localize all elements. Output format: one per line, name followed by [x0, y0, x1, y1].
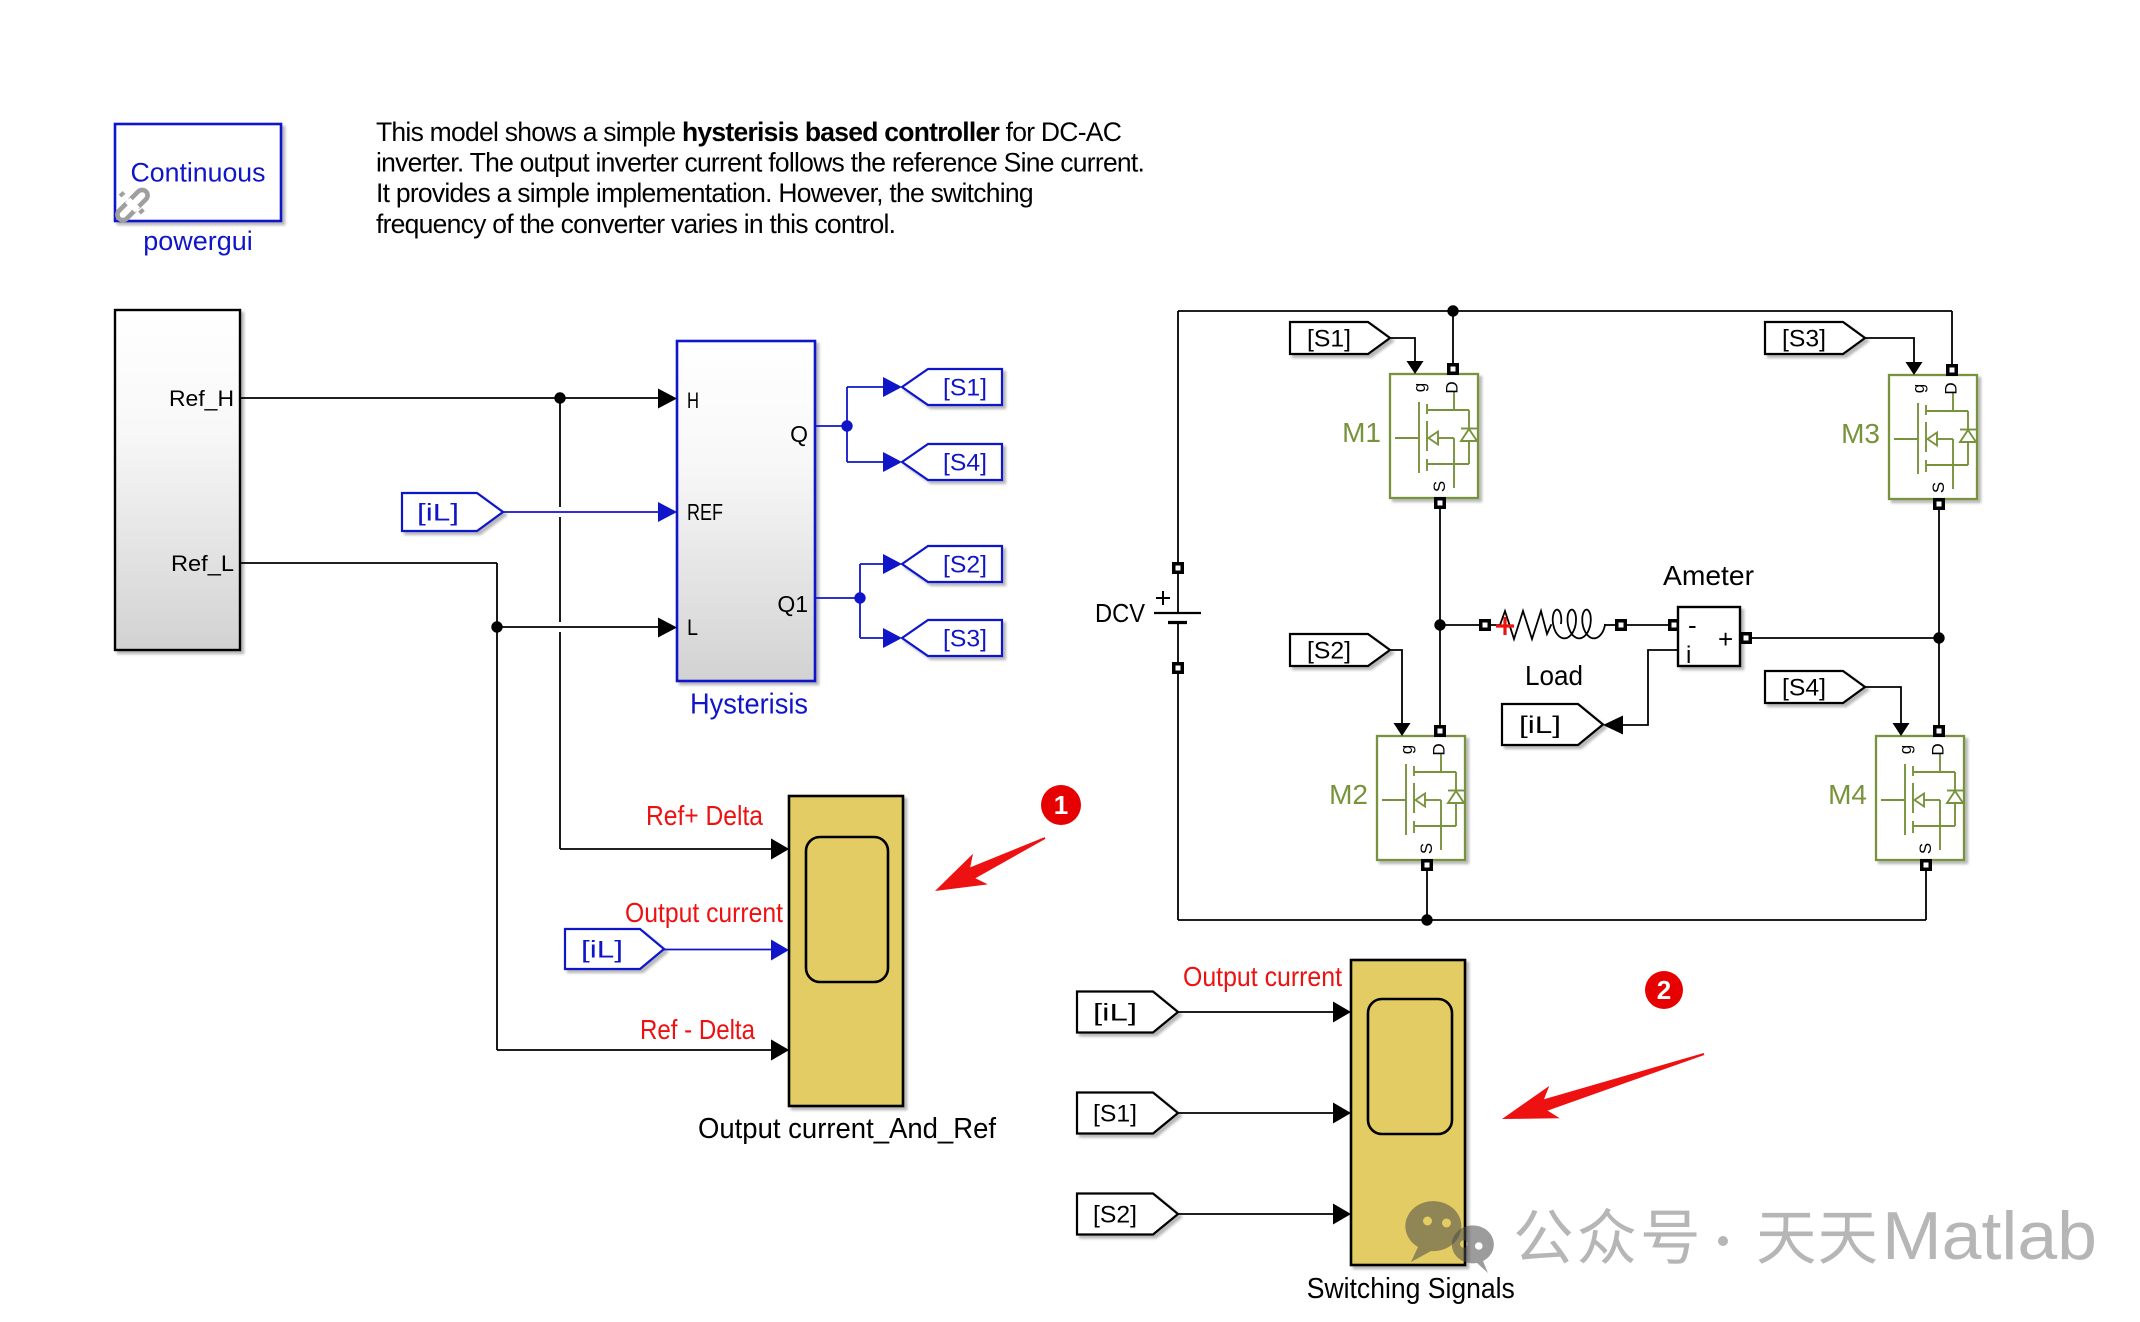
svg-text:S: S	[1916, 843, 1935, 854]
svg-text:S: S	[1417, 843, 1436, 854]
from tag [S3]	[1765, 322, 1865, 354]
svg-text:D: D	[1443, 381, 1462, 393]
inductor	[1553, 610, 1606, 639]
svg-text:M1: M1	[1342, 417, 1381, 448]
svg-text:Matlab: Matlab	[1882, 1198, 2097, 1274]
red arrow 2	[1502, 1053, 1704, 1119]
red plus polarity	[1496, 624, 1514, 627]
Hysterisis block	[677, 341, 815, 681]
wire [S2] to scope2	[1178, 1213, 1339, 1215]
wire Ref_L	[240, 562, 497, 564]
svg-text:2: 2	[1657, 975, 1671, 1005]
wire Q to goto tags	[815, 425, 847, 427]
svg-text:Ref+ Delta: Ref+ Delta	[646, 800, 763, 831]
MOSFET M1	[1390, 374, 1478, 498]
svg-text:[iL]: [iL]	[1093, 1000, 1137, 1027]
watermark text	[1516, 1209, 1571, 1263]
svg-text:[S2]: [S2]	[943, 552, 987, 579]
svg-text:D: D	[1929, 743, 1948, 755]
wire junction down to scope port1	[559, 398, 561, 507]
svg-text:Ref_L: Ref_L	[171, 551, 234, 576]
from tag [S2] bottom	[1077, 1194, 1178, 1235]
wire load node to M2 drain	[1439, 625, 1441, 725]
svg-text:[S1]: [S1]	[1093, 1101, 1137, 1128]
node load	[1434, 619, 1445, 630]
wire Q1 to goto tags	[815, 597, 860, 599]
from tag [S1] bottom	[1077, 1093, 1178, 1134]
svg-text:Hysterisis: Hysterisis	[690, 689, 808, 721]
wire junction to L input	[497, 626, 663, 628]
svg-text:S: S	[1929, 482, 1948, 493]
bottom rail wire	[1178, 919, 1926, 921]
node ameter output	[1933, 632, 1944, 643]
svg-text:[S3]: [S3]	[943, 626, 987, 653]
wire S2 to M2 gate	[1390, 650, 1402, 723]
Ameter block	[1668, 619, 1680, 631]
wire S1 to M1 gate	[1390, 338, 1415, 362]
svg-text:g: g	[1896, 745, 1915, 754]
wire M3 source down	[1938, 510, 1940, 638]
wire junction down to scope port3	[497, 1049, 777, 1051]
watermark wechat icon	[1405, 1201, 1493, 1273]
svg-text:[S4]: [S4]	[1782, 675, 1826, 702]
wire [iL] to scope2	[1178, 1011, 1339, 1013]
svg-text:i: i	[1686, 642, 1691, 669]
svg-text:This model shows a simple hyst: This model shows a simple hysterisis bas…	[376, 117, 1122, 147]
goto tag [iL] load current	[1502, 704, 1603, 745]
from tag [iL] to scope1	[565, 929, 664, 969]
svg-text:Ameter: Ameter	[1663, 560, 1754, 591]
svg-text:[S4]: [S4]	[943, 450, 987, 477]
svg-text:M2: M2	[1329, 779, 1368, 810]
svg-text:powergui: powergui	[143, 226, 253, 256]
MOSFET M4	[1876, 736, 1964, 860]
svg-text:Output current_And_Ref: Output current_And_Ref	[698, 1113, 996, 1145]
svg-text:Ref - Delta: Ref - Delta	[640, 1014, 755, 1045]
svg-text:inverter. The output inverter: inverter. The output inverter current fo…	[376, 148, 1144, 178]
node Ref_H junction	[554, 392, 565, 403]
goto tag [S4]	[902, 444, 1002, 480]
from tag [S2]	[1290, 634, 1390, 666]
svg-text:M4: M4	[1828, 779, 1867, 810]
svg-text:REF: REF	[687, 499, 723, 525]
wire ameter i output to iL goto	[1621, 650, 1678, 725]
svg-text:g: g	[1397, 745, 1416, 754]
svg-text:[S1]: [S1]	[1307, 326, 1351, 353]
red circle 1	[1041, 785, 1081, 825]
from tag [iL] to REF	[402, 493, 503, 531]
red arrow 1	[935, 837, 1045, 891]
wire ameter plus output	[1752, 637, 1939, 639]
svg-text:+: +	[1718, 624, 1733, 654]
svg-text:M3: M3	[1841, 418, 1880, 449]
svg-text:[S1]: [S1]	[943, 375, 987, 402]
svg-text:Load: Load	[1525, 660, 1583, 691]
svg-text:L: L	[687, 615, 698, 640]
svg-text:[S2]: [S2]	[1307, 638, 1351, 665]
svg-text:g: g	[1909, 384, 1928, 393]
battery plus sign	[1156, 597, 1170, 599]
svg-text:DCV: DCV	[1095, 598, 1146, 628]
svg-text:g: g	[1410, 383, 1429, 392]
from tag [iL] bottom	[1077, 992, 1178, 1033]
DC source battery	[1177, 311, 1179, 562]
MOSFET M3	[1889, 375, 1977, 499]
svg-text:Switching Signals: Switching Signals	[1307, 1273, 1515, 1305]
svg-text:-: -	[1688, 610, 1697, 640]
svg-text:It provides a simple implement: It provides a simple implementation. How…	[376, 178, 1033, 208]
subsystem reference source block	[115, 310, 240, 650]
powergui block	[115, 124, 281, 221]
svg-text:Output current: Output current	[625, 897, 783, 928]
svg-text:frequency of the converter var: frequency of the converter varies in thi…	[376, 209, 895, 239]
load RL branch	[1440, 624, 1479, 626]
wire iL to REF	[503, 511, 663, 513]
MOSFET M2	[1377, 736, 1465, 860]
wire node to M4 drain	[1938, 638, 1940, 725]
battery plates	[1154, 612, 1201, 614]
wire [S1] to scope2	[1178, 1112, 1339, 1114]
wire Ref_H to H	[240, 397, 663, 399]
svg-text:[S2]: [S2]	[1093, 1202, 1137, 1229]
from tag [S1]	[1290, 322, 1390, 354]
svg-text:Q1: Q1	[777, 591, 808, 617]
wire S3 to M3 gate	[1865, 338, 1914, 362]
top rail wire	[1178, 310, 1952, 312]
svg-text:[iL]: [iL]	[1519, 712, 1561, 739]
from tag [S4]	[1765, 671, 1865, 703]
node Ref_L junction	[491, 621, 502, 632]
svg-text:1: 1	[1054, 790, 1068, 820]
goto tag [S2]	[902, 546, 1002, 582]
svg-text:Q: Q	[790, 421, 808, 447]
broken link icon	[115, 188, 150, 223]
node bottom rail	[1421, 914, 1432, 925]
svg-text:D: D	[1942, 382, 1961, 394]
scope Switching Signals	[1351, 960, 1465, 1265]
goto tag [S1]	[902, 369, 1002, 405]
svg-text:[iL]: [iL]	[417, 500, 459, 527]
svg-text:H: H	[687, 388, 699, 413]
svg-text:[iL]: [iL]	[581, 937, 623, 964]
svg-text:Continuous: Continuous	[131, 158, 266, 188]
resistor	[1491, 611, 1551, 639]
wire S4 to M4 gate	[1865, 687, 1901, 723]
goto tag [S3]	[902, 620, 1002, 656]
red circle 2	[1645, 971, 1683, 1009]
node top rail	[1447, 305, 1458, 316]
wire M1 source to load node	[1439, 509, 1441, 625]
svg-text:[S3]: [S3]	[1782, 326, 1826, 353]
svg-text:D: D	[1430, 743, 1449, 755]
scope Output current_And_Ref	[789, 796, 903, 1106]
svg-text:S: S	[1430, 481, 1449, 492]
svg-text:Output current: Output current	[1183, 961, 1342, 992]
svg-text:Ref_H: Ref_H	[169, 386, 234, 411]
